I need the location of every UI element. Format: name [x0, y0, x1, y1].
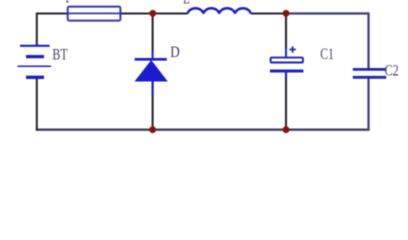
battery BT [18, 43, 52, 78]
svg-text:C1: C1 [320, 46, 334, 63]
junction node after fuse [149, 10, 156, 17]
junction node bottom C1 [283, 126, 290, 133]
wire: diode branch lower [152, 95, 154, 130]
wire: diode branch upper [152, 14, 154, 53]
wire: right side below C2 to bottom-right corner [367, 78, 369, 129]
inductor L (four arcs) [188, 8, 251, 13]
svg-text:BT: BT [52, 46, 68, 63]
svg-text:C2: C2 [385, 62, 399, 79]
svg-text:F: F [65, 0, 72, 6]
wire: left vertical + top-left segment (battery + to fuse) [37, 14, 68, 46]
wire: fuse right to inductor start [120, 13, 187, 15]
junction node at inductor output [283, 10, 290, 17]
svg-text:D: D [170, 44, 179, 61]
wire: C1 branch upper [285, 14, 287, 50]
svg-text:L: L [183, 0, 190, 7]
wire: bottom rail [36, 128, 370, 130]
wire: node B to top-right corner, down right side to C2 [286, 14, 369, 69]
fuse F (rectangle with through line) [68, 7, 121, 21]
capacitor C1 (polarized: hollow top plate, solid bottom plate, plus sign) [270, 46, 304, 78]
capacitor C2 (two solid plates) [353, 69, 386, 77]
wire: inductor end to node B [251, 13, 286, 15]
diode D (cathode bar, up-pointing triangle, lead stubs) [135, 51, 167, 96]
junction node bottom diode [149, 126, 156, 133]
wire: C1 branch lower [285, 78, 287, 130]
wire: battery negative to bottom-left corner [36, 79, 38, 131]
